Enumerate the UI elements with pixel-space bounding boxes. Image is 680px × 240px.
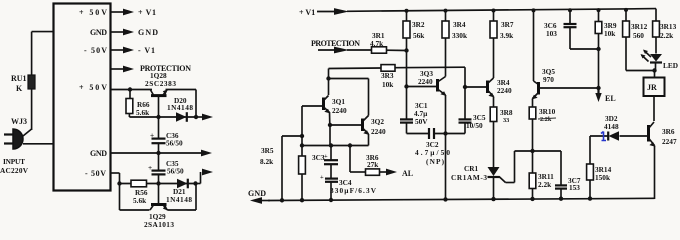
wire 3Q1e to 3Q2b [330, 124, 363, 126]
svg-text:1N4148: 1N4148 [167, 103, 193, 112]
svg-text:3.9k: 3.9k [500, 31, 514, 40]
node -50V branch [117, 181, 121, 185]
node bus-3C3 [329, 143, 333, 147]
node rail 282 [280, 198, 284, 202]
svg-text:- 50V: - 50V [85, 169, 106, 178]
node rail 3R7 [492, 9, 496, 13]
svg-text:10k: 10k [382, 80, 394, 89]
svg-text:2247: 2247 [662, 137, 677, 146]
svg-text:2SC2383: 2SC2383 [145, 79, 176, 88]
svg-text:AL: AL [402, 169, 413, 178]
svg-text:2.2k: 2.2k [538, 180, 552, 189]
capacitor 3C7 [555, 151, 581, 199]
svg-text:INPUT: INPUT [3, 157, 25, 166]
svg-text:153: 153 [569, 183, 580, 192]
resistor 3R5 [260, 146, 305, 174]
svg-text:3R5: 3R5 [261, 146, 274, 155]
capacitor 3C3 [312, 146, 338, 179]
svg-text:2SA1013: 2SA1013 [144, 220, 174, 228]
svg-text:56/50: 56/50 [167, 167, 184, 176]
svg-text:3R2: 3R2 [412, 20, 425, 29]
transistor 1Q29 [144, 184, 174, 230]
relay JR [644, 71, 665, 122]
svg-text:56/50: 56/50 [166, 139, 183, 148]
svg-text:970: 970 [543, 75, 554, 84]
transistor 1Q28 [145, 71, 176, 117]
svg-text:LED: LED [663, 61, 678, 70]
svg-text:+ 50V: + 50V [79, 8, 107, 17]
svg-text:4148: 4148 [604, 122, 619, 131]
resistor 3R4 330k [442, 11, 468, 77]
svg-text:3R13: 3R13 [660, 22, 677, 31]
svg-text:- V1: - V1 [138, 46, 155, 55]
wire 3Q3 emitter down [445, 95, 447, 199]
node 3Q3 base [404, 84, 408, 88]
svg-text:+ V1: + V1 [299, 8, 315, 17]
wire -50V lower branch [120, 184, 150, 211]
wire +V1 top rail [347, 9, 656, 21]
node PROTECTION [311, 39, 372, 53]
svg-text:3R4: 3R4 [453, 20, 466, 29]
node +V1 [299, 8, 349, 17]
GND output arrow [111, 28, 158, 37]
node 3Q4 base [463, 85, 467, 89]
svg-text:2.2k: 2.2k [540, 116, 552, 123]
svg-text:330k: 330k [452, 31, 468, 40]
capacitor 3C1 [400, 87, 428, 134]
svg-text:8.2k: 8.2k [260, 157, 274, 166]
svg-text:WJ3: WJ3 [11, 117, 27, 126]
svg-text:50V: 50V [415, 117, 428, 126]
resistor 3R9 [595, 10, 617, 88]
svg-text:+: + [150, 131, 154, 140]
svg-text:3R8: 3R8 [500, 108, 513, 117]
svg-text:+ 50V: + 50V [79, 83, 107, 92]
svg-text:3R12: 3R12 [631, 22, 648, 31]
svg-text:2240: 2240 [332, 106, 347, 115]
svg-text:3R3: 3R3 [381, 71, 394, 80]
node base +50V [128, 87, 132, 91]
node rail 3C6 [568, 8, 572, 12]
svg-text:103: 103 [546, 29, 557, 38]
-V1 output arrow [111, 46, 155, 55]
resistor 3R6 and AL arrow [350, 146, 413, 179]
resistor 3R1 [370, 31, 407, 53]
node LED 3R12 [652, 68, 656, 72]
node rail 3R2 [405, 9, 409, 13]
diode D20 [167, 96, 193, 122]
svg-text:+ V1: + V1 [138, 8, 156, 17]
node gate 3R10 [530, 149, 534, 153]
svg-text:5.6k: 5.6k [136, 108, 150, 117]
node A junction [156, 115, 160, 119]
wire emitter bus y145 [302, 145, 369, 147]
svg-text:K: K [16, 84, 23, 93]
wire 3Q1 collector to 3R3 [329, 68, 382, 95]
node bus-3R5 [300, 143, 304, 147]
transistor 3Q1 [302, 96, 347, 126]
node bus-3R6 [348, 143, 352, 147]
svg-text:- 50V: - 50V [84, 46, 107, 55]
node EL [596, 86, 600, 90]
svg-text:2240: 2240 [497, 86, 512, 95]
wire 3Q6 base [590, 135, 649, 137]
node GND C36 [156, 151, 160, 155]
svg-text:560: 560 [633, 31, 644, 40]
svg-text:PROTECTION: PROTECTION [311, 39, 360, 48]
resistor 3R7 [490, 11, 514, 79]
wire 3Q1 base vertical [301, 106, 303, 199]
node rail 3Q5 [532, 8, 536, 12]
svg-text:27k: 27k [367, 160, 379, 169]
svg-text:CR1: CR1 [464, 164, 479, 173]
resistor 3R11 [529, 151, 554, 199]
svg-text:EL: EL [605, 94, 616, 103]
resistor R66 [126, 90, 150, 118]
svg-text:3Q1: 3Q1 [332, 97, 345, 106]
node rail 3R5 [300, 198, 304, 202]
GND mid wire [111, 150, 212, 157]
svg-text:CR1AM-3: CR1AM-3 [451, 173, 487, 182]
node 3R9-3C6 [596, 47, 600, 51]
svg-text:GND: GND [90, 149, 107, 158]
svg-text:GND: GND [138, 28, 158, 37]
wire link 282 [282, 136, 302, 199]
svg-text:10k: 10k [604, 29, 616, 38]
node rail 3C4 [329, 198, 333, 202]
svg-text:+: + [148, 163, 152, 172]
blue pen mark [601, 132, 606, 141]
+V1 output arrow [111, 8, 156, 17]
resistor 3R3 [381, 65, 465, 89]
LED [641, 50, 679, 71]
node rail 3R11 [530, 197, 534, 201]
svg-text:3R6: 3R6 [662, 127, 675, 136]
wire 3Q2 collector link [329, 78, 369, 80]
resistor 3R14 [587, 136, 612, 199]
node rail CR1 [491, 197, 495, 201]
wire 3Q1e down [329, 125, 331, 146]
svg-text:33: 33 [503, 117, 509, 124]
diode D21 [166, 179, 192, 204]
node base 1Q29 [156, 181, 160, 185]
svg-text:150k: 150k [595, 173, 611, 182]
svg-text:AC220V: AC220V [0, 166, 29, 175]
resistor 3R13 [653, 21, 677, 54]
node rail 3Q3e [443, 197, 447, 201]
svg-text:3R10: 3R10 [539, 107, 556, 116]
svg-text:1N4148: 1N4148 [166, 195, 192, 204]
capacitor C35 [148, 153, 184, 184]
output arrow node B [196, 114, 213, 121]
capacitor 3C2 [407, 128, 466, 166]
wire -50V [111, 173, 196, 184]
PSU box U-left [54, 4, 111, 191]
PROTECTION output arrow [111, 64, 191, 73]
svg-text:3R7: 3R7 [501, 20, 514, 29]
svg-text:3C3: 3C3 [312, 153, 325, 162]
node D21 cathode [193, 181, 197, 185]
transistor 3Q2 [363, 79, 386, 146]
resistor 3R12 [623, 10, 655, 71]
node 3Q1 emitter [328, 123, 332, 127]
svg-text:10/50: 10/50 [466, 121, 483, 130]
svg-text:RU1: RU1 [11, 74, 27, 83]
svg-text:2.2k: 2.2k [660, 31, 674, 40]
svg-text:+: + [320, 174, 324, 181]
transistor 3Q6 (labeled 3R6) [649, 122, 677, 199]
transistor 3Q5 [532, 11, 599, 100]
resistor 3R8 [490, 97, 513, 168]
node rail 3R12 [624, 8, 628, 12]
svg-text:GND: GND [248, 189, 266, 198]
capacitor C36 [150, 117, 183, 153]
transistor 3Q4 (labeled 3R4) [465, 78, 512, 98]
transistor 3Q3 [407, 69, 447, 96]
node 3Q1 collector [326, 76, 330, 80]
wire gate bus [515, 150, 562, 152]
node rail 3C7 [559, 197, 563, 201]
EL arrow [595, 88, 615, 103]
capacitor 3C6 [544, 10, 599, 49]
wire bottom GND rail [268, 198, 655, 200]
svg-text:GND: GND [90, 28, 107, 37]
svg-text:5.6k: 5.6k [133, 196, 147, 205]
capacitor 3C5 [459, 67, 486, 133]
resistor 3R10 [529, 99, 556, 152]
node rail 3R4 [444, 9, 448, 13]
resistor 3R2 [403, 11, 425, 87]
wire +50V rail to 1Q28 [111, 90, 196, 118]
GND arrow left [248, 189, 270, 204]
node 3C2 3Q3e [443, 131, 447, 135]
svg-text:56k: 56k [413, 31, 425, 40]
plug WJ3 [0, 117, 54, 175]
node D20 cathode [194, 115, 198, 119]
svg-text:+: + [324, 153, 328, 160]
svg-text:3Q2: 3Q2 [371, 117, 384, 126]
resistor R56 [131, 180, 148, 205]
node 3R1-3R2 [404, 48, 408, 52]
resistor RU1 [11, 32, 54, 136]
wire node A to D20 [129, 116, 196, 118]
svg-text:(NP): (NP) [426, 157, 445, 166]
capacitor 3C4 [320, 174, 377, 199]
node 3R5 top link [300, 134, 304, 138]
wire 1Q29 collector out [168, 169, 214, 210]
thyristor CR1 [451, 151, 515, 199]
node rail 3R14 [588, 196, 592, 200]
svg-text:2240: 2240 [371, 127, 386, 136]
diode 3D2 [604, 114, 619, 141]
svg-text:2240: 2240 [418, 77, 433, 86]
node rail 3R9 [597, 8, 601, 12]
svg-text:JR: JR [647, 83, 657, 92]
